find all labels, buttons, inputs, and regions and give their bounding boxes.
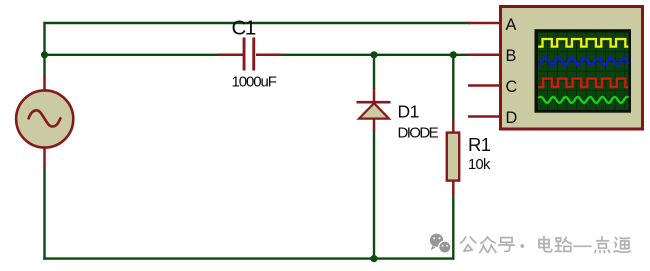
svg-text:C1: C1 [232,17,256,40]
svg-text:D: D [506,109,518,127]
svg-text:A: A [506,16,517,34]
svg-text:R1: R1 [468,134,491,155]
svg-text:DIODE: DIODE [398,125,439,142]
svg-text:B: B [506,47,517,65]
svg-text:10k: 10k [468,157,491,173]
svg-text:1000uF: 1000uF [232,73,277,90]
svg-text:D1: D1 [398,101,419,121]
svg-text:C: C [506,78,518,96]
